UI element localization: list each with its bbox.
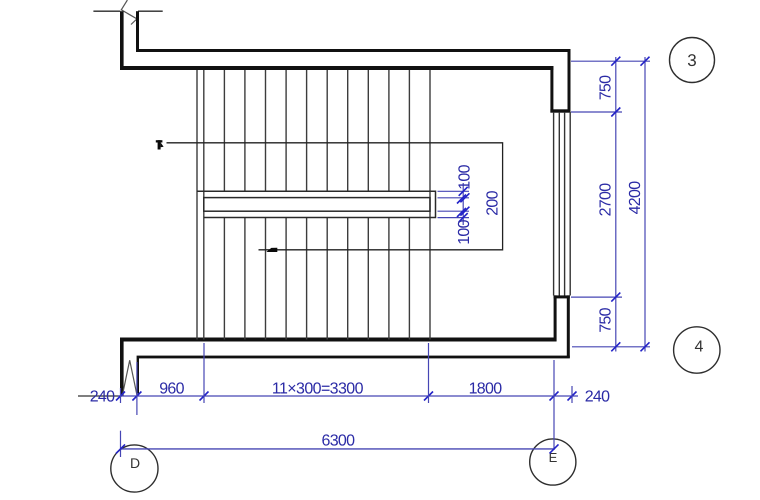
handrail end dimension line [462,183,464,225]
right wall outer face (top) [568,49,571,113]
grid circle 3 [670,38,715,83]
lower flight treads [224,218,409,340]
svg-text:200: 200 [485,190,502,215]
svg-text:750: 750 [598,307,615,332]
bottom dimension extension lines [121,343,573,457]
left wall inner face (bottom) [137,356,139,394]
svg-text:4200: 4200 [627,181,644,215]
window glazing lines [554,112,571,296]
svg-text:11×300=3300: 11×300=3300 [272,381,364,398]
svg-text:3: 3 [687,51,696,70]
top-right wall end cap [550,109,570,112]
overall dimension line 6300 [121,448,555,450]
bottom dimension ticks [116,392,577,401]
upper flight treads [224,70,409,191]
right dimension extension lines [571,61,650,347]
stair direction path [167,143,503,250]
svg-text:6300: 6300 [322,433,356,450]
left wall outer face (bottom) [120,338,124,397]
right wall inner face (top) [550,66,553,113]
grid circle 4 [674,327,720,373]
top wall lower line [120,66,553,70]
stair flight left edge line B [203,70,205,340]
top break cut line [93,10,162,12]
svg-text:1800: 1800 [469,381,503,398]
left wall inner face (top) [136,11,139,52]
bottom break zigzag [122,360,137,396]
handrail outer rectangle [197,191,436,217]
right dimension ticks [611,57,649,352]
down arrow head [266,248,277,252]
svg-text:750: 750 [598,75,615,100]
handrail end ticks [457,187,469,222]
up arrow mark [156,140,164,149]
stair flight right edge [429,70,431,340]
right dimension line outer 4200 [644,57,646,352]
bottom wall bottom line [139,356,570,359]
bottom wall top line [120,338,556,342]
bottom dimension line [78,395,578,397]
stair flight left edge line A [196,70,198,340]
right dimension line inner [615,57,617,352]
grid circle E [530,439,576,485]
top break zigzag [121,0,137,25]
svg-text:2700: 2700 [598,183,615,217]
svg-text:4: 4 [695,339,704,356]
svg-text:100: 100 [457,164,474,189]
svg-text:240: 240 [90,389,115,406]
svg-text:240: 240 [585,389,610,406]
svg-text:100: 100 [456,219,473,244]
6300 end ticks [116,444,559,453]
top wall upper line [136,49,571,52]
handrail end extension lines [438,191,470,217]
svg-text:960: 960 [159,381,184,398]
bottom-right column [554,295,570,357]
svg-text:D: D [130,455,140,471]
handrail inner rectangle [204,198,430,212]
left wall outer face (top) [120,11,124,70]
grid circle D [111,445,158,492]
